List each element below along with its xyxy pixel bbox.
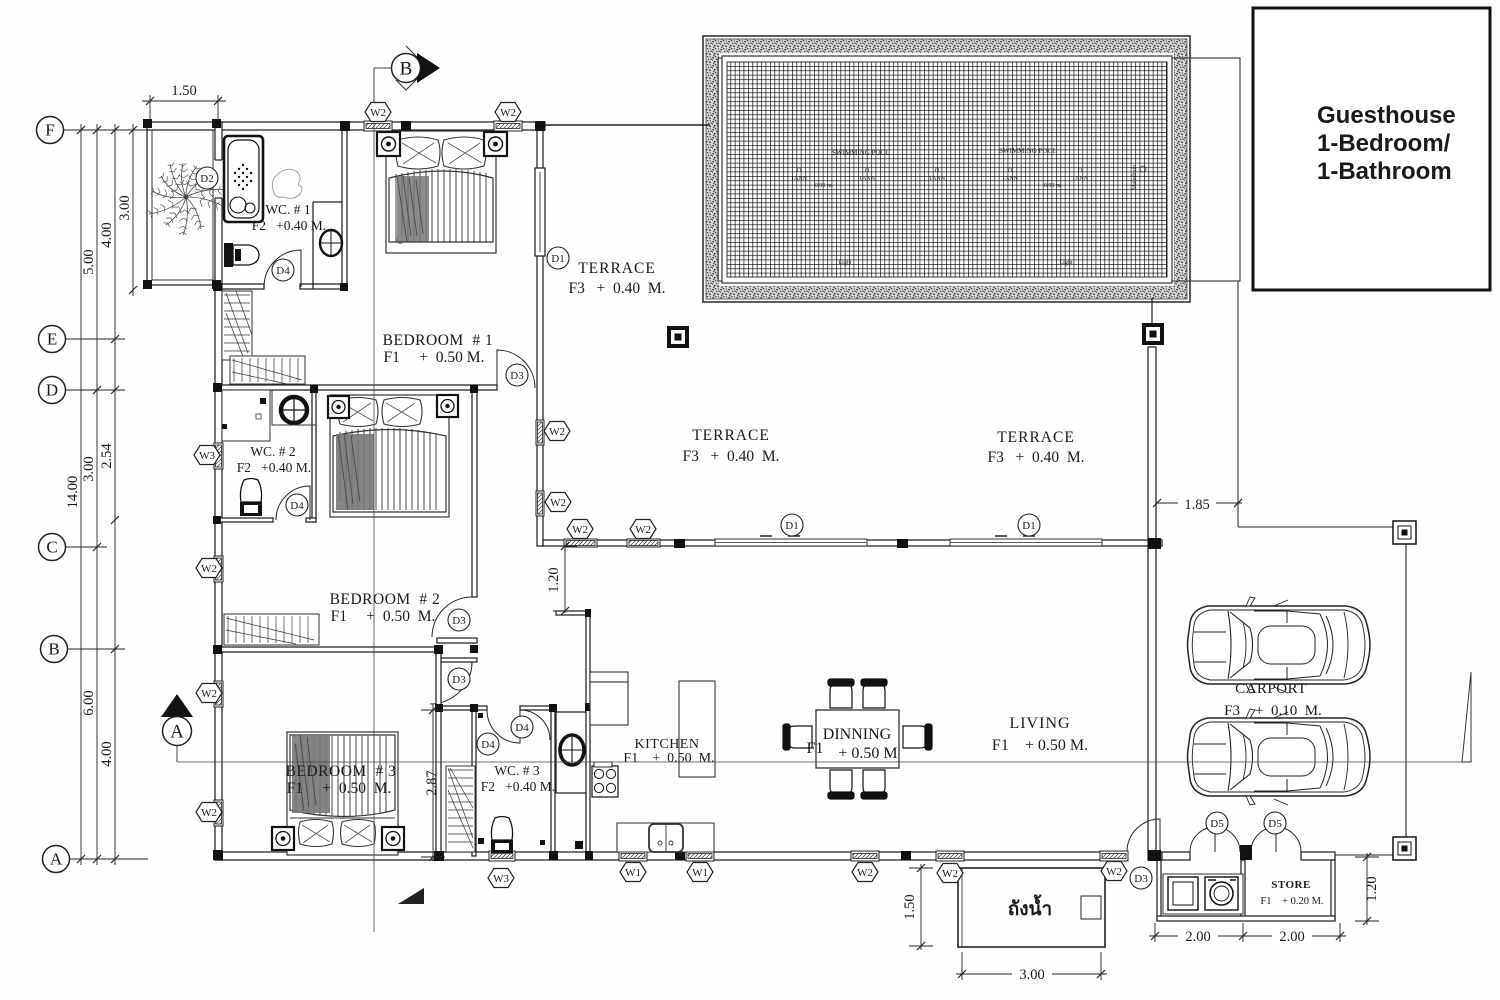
window W2 terrace south wall 1: [564, 539, 597, 547]
bedroom2 door D3 arc upper: [432, 597, 472, 637]
svg-text:STORE: STORE: [1271, 879, 1311, 891]
window tag W2 top 1: [365, 103, 391, 122]
washing machine laundry: [1163, 874, 1243, 914]
svg-text:D5: D5: [1268, 818, 1282, 830]
label living: [992, 715, 1088, 754]
WC3 left wall: [472, 706, 476, 856]
bed 2 bedroom2: [330, 395, 449, 517]
svg-text:F2 +0.40 M.: F2 +0.40 M.: [237, 460, 311, 475]
door tag D3 entry: [1130, 867, 1152, 889]
window W1 bottom wall 2: [686, 851, 714, 861]
window tag W2 terrace sill 1: [567, 520, 593, 539]
carport top right boundary: [1238, 526, 1406, 528]
terrace south wall: [543, 540, 1162, 546]
door tag D4 wc3 a: [477, 733, 499, 755]
svg-text:1-Bathroom: 1-Bathroom: [1317, 158, 1452, 185]
closet hall hatched vertical: [222, 291, 252, 360]
svg-text:W2: W2: [370, 107, 386, 119]
swimming pool outer border: [703, 36, 1190, 302]
washbasin nook walls: [555, 712, 557, 793]
svg-text:W2: W2: [549, 426, 565, 438]
svg-text:2.54: 2.54: [99, 443, 115, 469]
svg-text:14.00: 14.00: [65, 476, 81, 509]
dim chain 5.00 3.00 6.00: [81, 124, 101, 865]
window tag W2 top 2: [495, 103, 521, 122]
WC1 bottom wall: [222, 284, 264, 289]
svg-text:D: D: [46, 381, 58, 400]
car 1 carport: [1188, 597, 1371, 693]
dim chain 14.00: [65, 124, 85, 865]
pool water grid: [727, 62, 1167, 277]
svg-text:A: A: [50, 850, 63, 869]
svg-text:SWIMMING POOL: SWIMMING POOL: [999, 147, 1057, 155]
svg-text:D2: D2: [200, 173, 213, 185]
bottom exterior wall: [215, 852, 1162, 860]
svg-text:F1 + 0.50 M.: F1 + 0.50 M.: [623, 751, 714, 766]
svg-text:F: F: [45, 121, 54, 140]
label wc2: [237, 444, 311, 475]
window W2 top wall left: [364, 121, 392, 131]
hall door stub wall: [437, 638, 477, 643]
svg-text:6.00: 6.00: [81, 690, 97, 715]
WC3 door D4 arcs: [487, 710, 520, 743]
svg-text:O: O: [797, 168, 802, 174]
svg-text:WC. # 3: WC. # 3: [494, 763, 540, 778]
svg-text:F3 + 0.40 M.: F3 + 0.40 M.: [987, 449, 1084, 466]
svg-text:O: O: [1078, 168, 1083, 174]
window W2 bedroom2 east wall 2: [536, 491, 544, 516]
chair right: [903, 726, 929, 748]
svg-text:WC. # 1: WC. # 1: [265, 202, 310, 217]
bed 3 bedroom3 rotated: [287, 732, 398, 855]
dim chain 3.00 garden: [117, 124, 137, 296]
car 2 carport: [1188, 709, 1371, 805]
pool deck right edge line down to carport: [1237, 281, 1239, 527]
svg-text:F1: F1: [807, 740, 824, 757]
pillows: [396, 137, 440, 169]
door tag D1 terrace 1: [781, 514, 803, 536]
svg-text:D1: D1: [1022, 520, 1035, 532]
svg-text:D4: D4: [481, 739, 495, 751]
window W2 left wall 1: [214, 556, 223, 582]
window W2 top wall right: [494, 121, 522, 131]
WC2 closet box: [222, 390, 270, 441]
pool depth markers: [791, 168, 1089, 266]
window tag W2 east wall 2: [545, 493, 571, 512]
dining table set: [783, 679, 932, 799]
chairs top: [783, 679, 932, 799]
carport pad column bottom right: [1393, 837, 1416, 860]
svg-text:BEDROOM # 1: BEDROOM # 1: [383, 332, 494, 349]
kitchen fridge counter: [590, 672, 628, 725]
svg-text:W1: W1: [692, 867, 708, 879]
grid bubble C: [39, 534, 66, 561]
svg-text:WC. # 2: WC. # 2: [250, 444, 295, 459]
svg-text:TANN: TANN: [929, 176, 946, 182]
WC3 top wall: [437, 706, 487, 710]
svg-text:F2 +0.40 M.: F2 +0.40 M.: [481, 779, 555, 794]
column small kitchen wall: [575, 841, 583, 849]
svg-text:4.00: 4.00: [99, 222, 115, 247]
svg-text:TANN: TANN: [791, 176, 808, 182]
svg-text:W3: W3: [493, 873, 509, 885]
grid bubble E: [39, 326, 66, 353]
svg-text:F1 + 0.50 M.: F1 + 0.50 M.: [287, 780, 392, 797]
svg-text:F3 + 0.40 M.: F3 + 0.40 M.: [682, 448, 779, 465]
svg-text:DINNING: DINNING: [823, 726, 892, 743]
bedroom1 door D3 arc: [497, 350, 535, 388]
door tag D4 wc2: [286, 494, 308, 516]
kitchen top wall: [556, 611, 590, 615]
store laundry block: [1157, 860, 1161, 920]
WC2 toilet: [222, 424, 262, 516]
svg-text:Light: Light: [839, 260, 852, 266]
door tag D1 terrace 2: [1018, 514, 1040, 536]
carport pad column top right: [1393, 521, 1416, 544]
window W1 bottom wall 1: [619, 851, 647, 861]
top exterior wall: [147, 122, 545, 130]
water tank: [958, 868, 1105, 947]
bedroom2 east wall: [472, 387, 477, 597]
nightstand speakers bedroom3: [272, 827, 404, 850]
window tag W2 left 1: [196, 559, 222, 578]
window tag W2 left 3: [196, 803, 222, 822]
grid bubble F: [37, 117, 64, 144]
section A right flag: [1462, 672, 1471, 762]
WC1 shower lines: [341, 130, 343, 202]
dim 1.20 store right: [1355, 853, 1380, 925]
WC2 bottom wall: [215, 518, 273, 522]
bathtub WC1: [224, 136, 263, 222]
section line A horizontal: [177, 761, 1471, 763]
kitchen west wall: [586, 611, 590, 856]
svg-text:D3: D3: [452, 615, 466, 627]
window tag W2 east wall 1: [544, 422, 570, 441]
window W3 left wall: [214, 443, 223, 469]
section marker B: [374, 46, 440, 112]
svg-text:W3: W3: [199, 450, 215, 462]
columns bedroom walls: [340, 283, 348, 291]
kitchen stove: [592, 762, 618, 797]
svg-text:W2: W2: [201, 563, 217, 575]
svg-text:BEDROOM # 3: BEDROOM # 3: [286, 763, 397, 780]
window W2 terrace south wall 2: [627, 539, 660, 547]
label carport: [1224, 681, 1322, 719]
entry door D3 arc at living: [1127, 819, 1160, 852]
wardrobe bedroom2 hatched: [224, 614, 319, 645]
svg-text:3.00: 3.00: [81, 456, 97, 481]
dim 2.87 bedroom3: [421, 704, 445, 861]
bedroom3 east wall: [436, 647, 441, 860]
svg-text:1-Bedroom/: 1-Bedroom/: [1317, 130, 1451, 157]
svg-text:TERRACE: TERRACE: [692, 427, 770, 444]
grid bubble B: [41, 636, 68, 663]
grid bubble D: [39, 377, 66, 404]
WC3 toilet: [478, 713, 545, 853]
window tag W2 living 3: [1101, 862, 1127, 881]
svg-text:Maindrain: Maindrain: [1132, 165, 1138, 190]
WC1 towel shape: [272, 169, 302, 198]
svg-text:5.00: 5.00: [81, 249, 97, 274]
window W2 left wall 2: [214, 681, 223, 707]
nightstand speakers bedroom2: [328, 395, 458, 418]
svg-text:F1 + 0.50 M.: F1 + 0.50 M.: [331, 608, 436, 625]
columns top wall: [340, 121, 350, 131]
section line B vertical: [373, 96, 375, 932]
window tag W3 wc3 bottom: [488, 869, 514, 888]
svg-text:2.87: 2.87: [424, 770, 440, 795]
svg-text:D4: D4: [276, 265, 290, 277]
dim 1.85 carport top: [1153, 496, 1242, 513]
svg-text:F1 + 0.50 M.: F1 + 0.50 M.: [384, 349, 485, 366]
window tag W3 left: [194, 446, 220, 465]
WC1 door D4 arc: [264, 250, 301, 287]
grid bubble A: [43, 846, 70, 873]
window W2 left wall 3: [214, 800, 223, 826]
bedroom1 east D1 door panel: [535, 168, 545, 256]
grid leader lines: [64, 129, 148, 131]
svg-text:D4: D4: [515, 722, 529, 734]
svg-text:W2: W2: [635, 524, 651, 536]
bed 1 bedroom1: [386, 131, 496, 253]
svg-text:C: C: [46, 538, 57, 557]
svg-text:Guesthouse: Guesthouse: [1317, 102, 1456, 129]
entry door D3 opening: [1126, 851, 1159, 861]
svg-text:F1 + 0.20 M.: F1 + 0.20 M.: [1260, 896, 1323, 907]
svg-text:2.00: 2.00: [1185, 929, 1210, 945]
terrace pad column right: [1142, 323, 1164, 345]
svg-text:D1: D1: [785, 520, 798, 532]
column stub store doors: [1240, 845, 1252, 860]
svg-text:D3: D3: [452, 674, 466, 686]
window tag W1 kitchen 2: [687, 863, 713, 882]
svg-text:TERRACE: TERRACE: [578, 260, 656, 277]
window sills hatched: [214, 121, 1128, 861]
svg-text:E: E: [47, 330, 57, 349]
svg-text:A: A: [170, 722, 184, 743]
WC3 right wall: [551, 706, 555, 856]
WC1 toilet: [224, 243, 259, 267]
svg-text:W1: W1: [625, 867, 641, 879]
terrace D1 sliding door left: [715, 536, 867, 546]
column garden corners: [143, 119, 152, 128]
WC1 bedroom1 divider wall: [342, 122, 347, 288]
WC1 inner partition: [312, 202, 314, 289]
door tag D1 bedroom1: [547, 247, 569, 269]
svg-text:O: O: [865, 168, 870, 174]
columns left wall: [213, 383, 222, 392]
svg-text:1.50: 1.50: [902, 894, 918, 919]
dim 3.00 tank: [956, 952, 1107, 983]
svg-text:F3 + 0.10 M.: F3 + 0.10 M.: [1224, 703, 1322, 719]
pool inner rim: [722, 56, 1172, 283]
label dinning: [807, 726, 898, 762]
columns bottom wall: [434, 851, 444, 861]
label kitchen: [623, 737, 714, 766]
svg-text:0.90 m.: 0.90 m.: [1044, 183, 1063, 189]
svg-text:2.00: 2.00: [1279, 929, 1304, 945]
svg-text:1.85: 1.85: [1184, 497, 1209, 513]
bedroom3 door D3 arc lower: [430, 662, 472, 704]
svg-text:D3: D3: [1134, 873, 1148, 885]
svg-text:3.00: 3.00: [1019, 967, 1044, 983]
dim chain 4.00 2.54 4.00: [99, 124, 119, 865]
svg-text:D4: D4: [290, 500, 304, 512]
hall washbasin oval: [560, 735, 584, 765]
svg-text:W2: W2: [1106, 866, 1122, 878]
svg-text:3.00: 3.00: [117, 195, 133, 220]
window W2 bedroom2 east wall 1: [536, 420, 544, 445]
svg-text:TANN: TANN: [1072, 176, 1089, 182]
WC2 door D4 arc: [276, 486, 310, 520]
dim 1.50 top: [142, 83, 226, 122]
window W2 bottom wall living 1: [851, 851, 879, 861]
door tag D3 bed2 lower: [448, 668, 470, 690]
door tag D3 bedroom1: [506, 364, 528, 386]
WC2 washbasin dark circle: [250, 396, 307, 423]
chair left: [786, 726, 812, 748]
window tag W2 terrace sill 2: [630, 520, 656, 539]
wall top terrace edge: [545, 124, 710, 126]
pool deck outline rectangle: [718, 58, 1240, 281]
svg-text:Light: Light: [1060, 260, 1073, 266]
svg-text:F1 + 0.50 M.: F1 + 0.50 M.: [992, 737, 1088, 754]
svg-text:BEDROOM # 2: BEDROOM # 2: [330, 591, 441, 608]
svg-text:1.20: 1.20: [1364, 876, 1380, 901]
palm tree in planter: [148, 162, 228, 235]
store top wall segments: [1162, 852, 1190, 860]
swimming pool stipple deck band: [706, 39, 1187, 299]
svg-text:F2 +0.40 M.: F2 +0.40 M.: [252, 218, 326, 233]
svg-text:KITCHEN: KITCHEN: [635, 737, 700, 752]
window W2 bottom wall living 3: [1100, 851, 1128, 861]
svg-text:W2: W2: [572, 524, 588, 536]
kitchen counter with sink: [617, 823, 714, 852]
svg-text:SWIMMING POOL: SWIMMING POOL: [832, 149, 890, 157]
svg-text:B: B: [48, 640, 59, 659]
section B bottom flag: [398, 888, 424, 904]
svg-text:1.20: 1.20: [546, 567, 562, 592]
WC2 sink counter corner: [272, 390, 316, 425]
svg-text:O: O: [1008, 168, 1013, 174]
terrace column pads with X pattern: [667, 323, 1416, 860]
window tag W1 kitchen 1: [620, 863, 646, 882]
svg-text:TANN: TANN: [859, 176, 876, 182]
door tag D4 wc1: [272, 259, 294, 281]
door tag D5 store 2: [1264, 812, 1286, 834]
svg-text:+ 0.50 M: + 0.50 M: [838, 745, 897, 762]
svg-text:TERRACE: TERRACE: [997, 429, 1075, 446]
dim 2.00 2.00 store: [1149, 923, 1346, 945]
nightstand speakers bedroom1: [377, 132, 507, 156]
guesthouse note box: [1253, 8, 1490, 290]
garden door opening D2 gap: [214, 160, 223, 198]
svg-text:1.50: 1.50: [171, 83, 196, 99]
store D5 door arcs: [1190, 827, 1215, 852]
section marker A: [161, 694, 193, 762]
carport east boundary: [1405, 527, 1407, 850]
structural columns: [143, 119, 1252, 861]
garden planter box: [147, 124, 218, 285]
svg-text:CARPORT: CARPORT: [1235, 681, 1307, 697]
dim 1.50 tank: [902, 864, 933, 950]
bedroom2 bottom wall: [215, 647, 437, 652]
window tag W2 living 1: [852, 863, 878, 882]
columns terrace wall: [674, 539, 685, 548]
left exterior wall: [215, 122, 222, 860]
WC1 washbasin: [320, 230, 342, 256]
label wc3: [481, 763, 555, 794]
WC2 right wall: [312, 387, 316, 522]
svg-text:W2: W2: [550, 497, 566, 509]
svg-text:O: O: [935, 168, 940, 174]
carport wall upper connector: [1151, 298, 1153, 326]
svg-text:W2: W2: [857, 867, 873, 879]
bedroom1 bottom wall: [215, 385, 497, 390]
svg-text:TANN: TANN: [1002, 176, 1019, 182]
svg-text:D3: D3: [510, 370, 524, 382]
door tag D4 wc3 b: [511, 716, 533, 738]
bedroom1 east wall: [537, 122, 543, 546]
window W3 bottom wall wc3: [489, 851, 515, 861]
window W2 bottom wall living 2: [936, 851, 964, 861]
label wc1: [252, 202, 326, 233]
door tag D2 garden: [196, 167, 218, 189]
table: [816, 710, 899, 768]
closet hall hatched horizontal: [230, 356, 305, 384]
door tag D5 store 1: [1206, 812, 1228, 834]
wardrobe bedroom3 hatched vertical: [446, 766, 475, 852]
svg-text:W2: W2: [201, 807, 217, 819]
kitchen island: [679, 681, 715, 777]
terrace D1 sliding door right: [950, 536, 1102, 546]
label store: [1260, 879, 1323, 907]
svg-text:D5: D5: [1210, 818, 1224, 830]
svg-text:F3 + 0.40 M.: F3 + 0.40 M.: [568, 280, 665, 297]
svg-text:4.00: 4.00: [99, 741, 115, 766]
door tag D3 bed2 upper: [448, 609, 470, 631]
svg-text:B: B: [400, 59, 413, 80]
svg-text:D1: D1: [551, 253, 564, 265]
chairs bottom: [830, 770, 852, 796]
terrace pad column left: [667, 326, 689, 348]
svg-text:LIVING: LIVING: [1009, 715, 1070, 732]
svg-text:W2: W2: [201, 688, 217, 700]
carport west wall: [1148, 347, 1156, 860]
svg-text:W2: W2: [942, 868, 958, 880]
window tag W2 left 2: [196, 684, 222, 703]
dim 1.20 hall: [546, 542, 577, 615]
svg-text:W2: W2: [500, 107, 516, 119]
blanket: [389, 171, 493, 242]
svg-text:0.90 m.: 0.90 m.: [815, 183, 834, 189]
window tag W2 living 2: [937, 864, 963, 883]
